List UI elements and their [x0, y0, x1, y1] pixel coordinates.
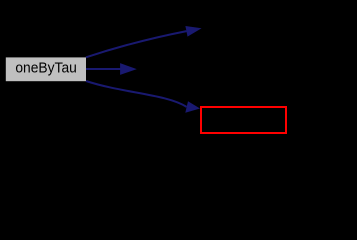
edge to middle node: [86, 63, 137, 75]
wire: [86, 81, 187, 107]
wire: [86, 68, 121, 70]
truncated node (red outline): [201, 107, 286, 133]
edge to top node: [86, 26, 202, 57]
arrowhead: [120, 63, 137, 75]
arrowhead: [185, 26, 201, 37]
wire: [86, 31, 187, 57]
svg-text:oneByTau: oneByTau: [15, 60, 77, 76]
node oneByTau: [6, 57, 86, 81]
edge to red node: [86, 81, 200, 113]
arrowhead: [185, 101, 200, 113]
